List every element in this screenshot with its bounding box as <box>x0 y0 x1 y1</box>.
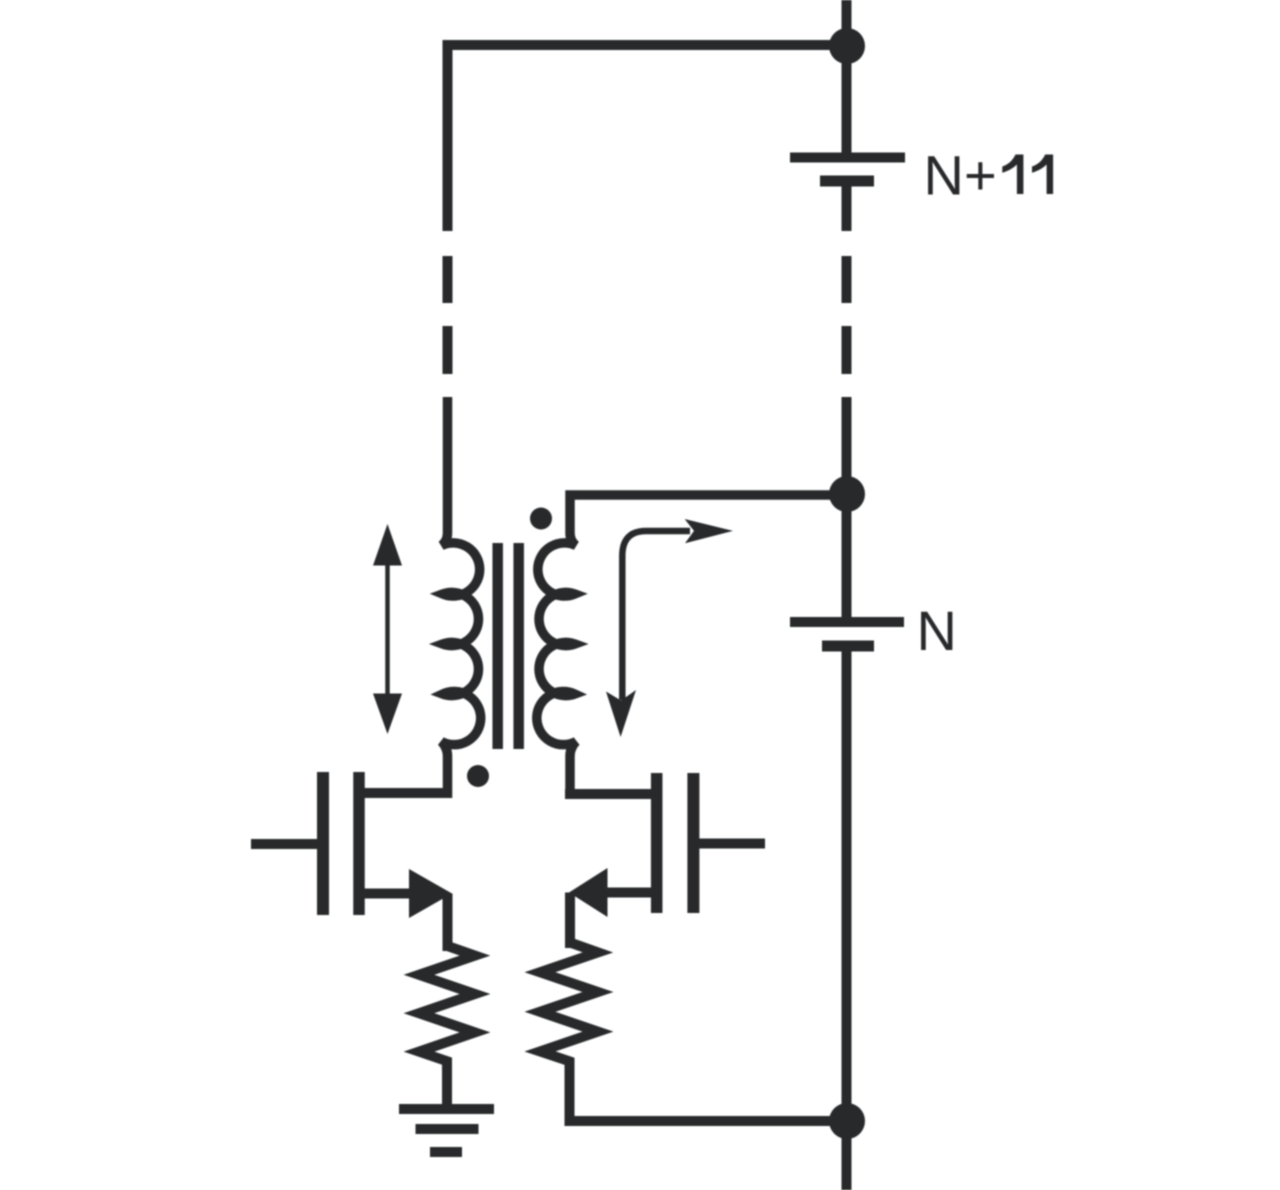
wire dashed segment right rail <box>842 256 852 374</box>
node junction middle (tap node) <box>829 476 865 512</box>
transistor Q1 gate bar <box>317 772 329 915</box>
resistor R1 <box>419 946 475 1109</box>
wire Q1 drain to primary bottom <box>359 788 452 798</box>
wire Q2 gate lead <box>699 839 765 849</box>
transistor Q2 gate bar <box>687 773 699 913</box>
svg-text:N+: N+ <box>924 144 997 207</box>
ground symbol bar 2 <box>416 1124 479 1134</box>
node junction bottom <box>829 1103 865 1139</box>
wire Q2 source down to resistor R2 <box>565 893 575 949</box>
label digit 1 (second) <box>1032 155 1053 195</box>
transistor Q1 channel bar <box>353 772 365 915</box>
wire dashed segment left rail <box>443 256 453 374</box>
label digit 1 (first) <box>1002 155 1023 195</box>
battery N short plate <box>822 641 874 652</box>
battery N+11 long plate <box>790 153 905 163</box>
wire right rail bottom segment <box>842 651 852 1190</box>
inductor transformer secondary (right winding) with top wire to tap node <box>537 495 847 798</box>
node polarity dot top (secondary) <box>530 508 552 530</box>
wire stub below battery N+11 <box>842 186 852 231</box>
transformer core bar right <box>513 543 524 749</box>
wire Q1 source lead <box>359 889 415 899</box>
arrow current head right <box>685 519 733 543</box>
wire Q2 drain to secondary bottom <box>565 789 657 799</box>
arrow current head down <box>606 690 636 737</box>
node polarity dot bottom (primary) <box>467 765 489 787</box>
arrow current path curved shaft <box>622 531 690 700</box>
wire Q2 source lead <box>602 888 657 898</box>
wire left rail solid top <box>443 40 453 231</box>
transistor Q1 source arrow <box>409 869 452 918</box>
arrow double-headed bottom head <box>373 694 402 735</box>
transistor Q2 channel bar <box>651 773 663 913</box>
svg-text:N: N <box>917 599 957 662</box>
resistor R2 with bottom wire to bottom node <box>540 943 847 1122</box>
ground symbol bar 3 <box>430 1147 462 1157</box>
wire Q1 source down to resistor R1 <box>443 894 453 952</box>
ground symbol bar 1 <box>399 1104 494 1114</box>
battery N long plate <box>790 617 904 627</box>
wire right rail top segment <box>842 0 852 157</box>
wire Q1 gate lead <box>251 839 317 849</box>
arrow double-headed top head <box>373 524 402 566</box>
wire right rail middle segment <box>842 397 852 622</box>
wire top horizontal from left branch to top node <box>443 40 847 50</box>
inductor transformer primary (left winding) with lead <box>442 397 481 798</box>
transformer core bar left <box>492 543 503 749</box>
transistor Q2 source arrow <box>569 868 608 917</box>
node junction top (supply node) <box>829 28 865 64</box>
arrow double-headed flux indicator shaft <box>385 558 390 700</box>
battery N+11 short plate <box>820 176 874 187</box>
